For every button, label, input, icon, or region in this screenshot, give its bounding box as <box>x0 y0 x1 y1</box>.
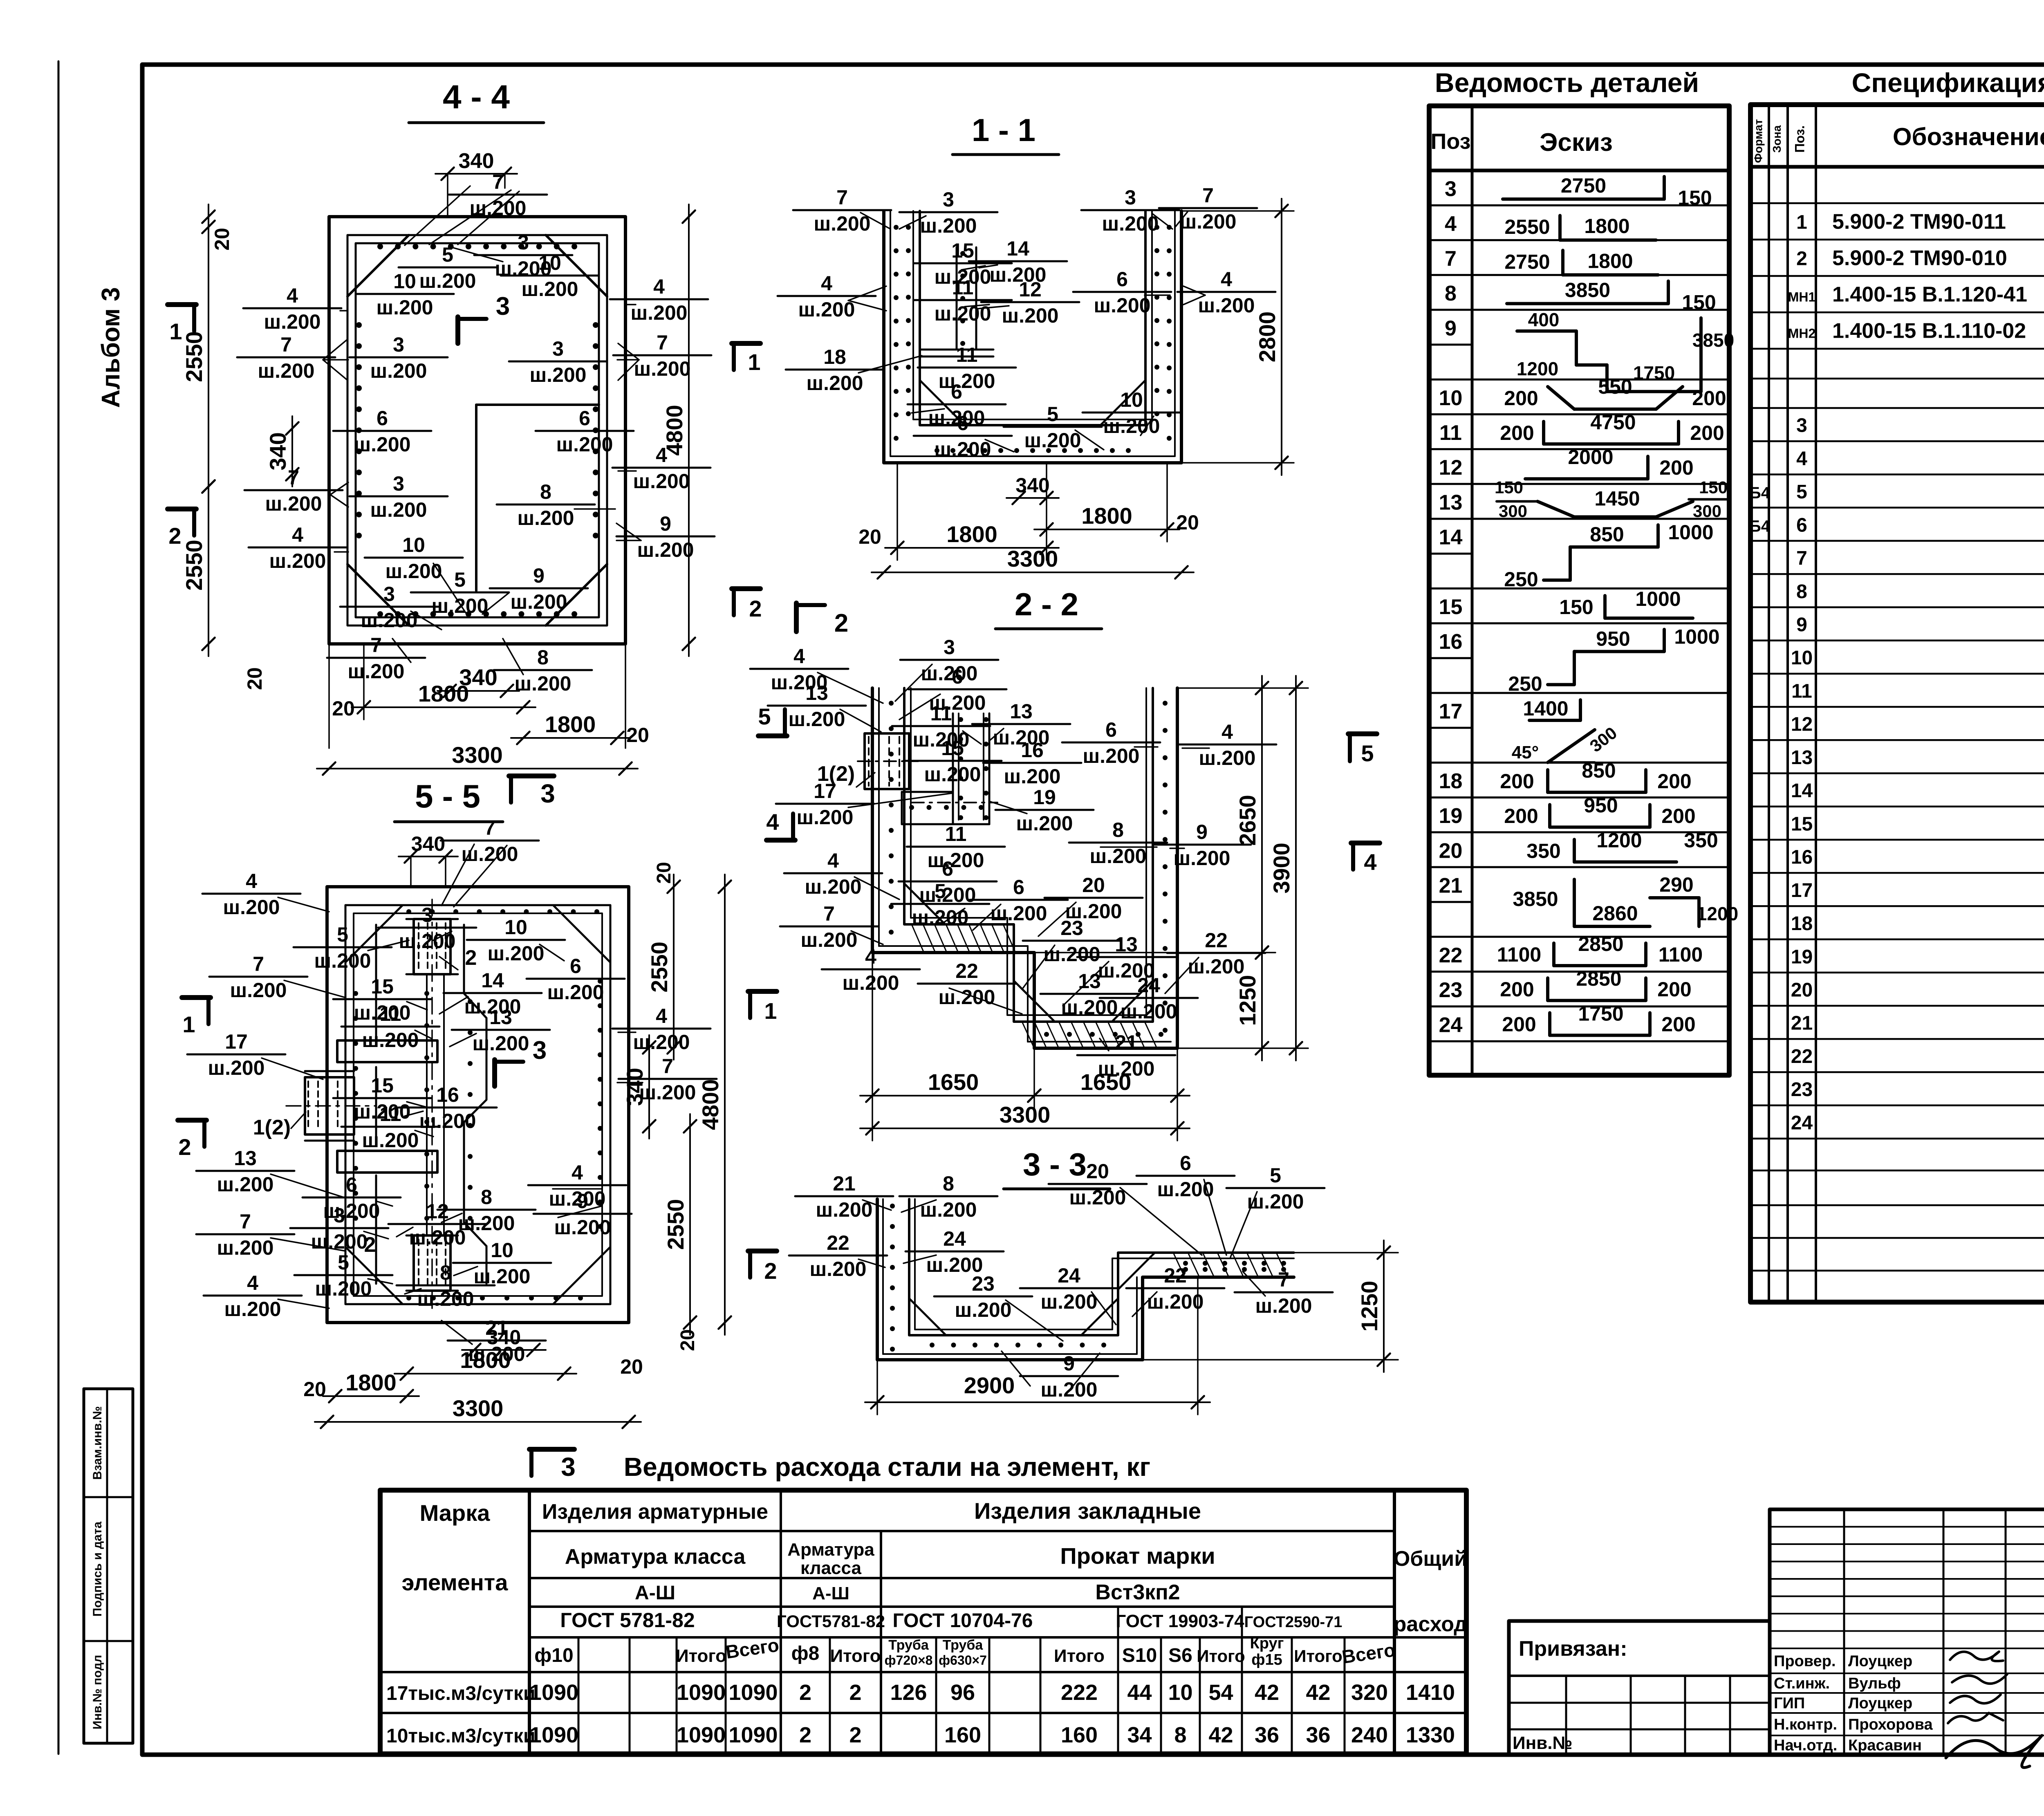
svg-text:5: 5 <box>1047 403 1058 426</box>
svg-text:ш.200: ш.200 <box>264 310 321 333</box>
svg-text:ш.200: ш.200 <box>1041 1290 1098 1313</box>
svg-text:22: 22 <box>1439 944 1463 967</box>
svg-text:1800: 1800 <box>1584 215 1629 238</box>
svg-text:150: 150 <box>1699 478 1728 497</box>
svg-text:ш.200: ш.200 <box>639 1081 696 1104</box>
svg-text:ш.200: ш.200 <box>939 986 995 1009</box>
svg-text:10: 10 <box>504 916 527 939</box>
svg-text:6: 6 <box>957 412 968 435</box>
svg-text:ш.200: ш.200 <box>348 660 405 683</box>
svg-text:Провер.: Провер. <box>1774 1653 1836 1670</box>
svg-text:850: 850 <box>1590 523 1624 546</box>
marker 3 below 5-5 <box>529 1447 574 1452</box>
svg-text:1090: 1090 <box>728 1680 778 1705</box>
svg-text:23: 23 <box>1439 978 1463 1002</box>
svg-text:Арматура: Арматура <box>787 1540 874 1560</box>
svg-text:6: 6 <box>1180 1152 1191 1175</box>
svg-text:150: 150 <box>1678 186 1712 209</box>
svg-text:20: 20 <box>858 525 881 548</box>
svg-text:5: 5 <box>454 568 466 591</box>
svg-text:13: 13 <box>805 682 828 704</box>
svg-text:ф15: ф15 <box>1251 1651 1282 1668</box>
svg-text:Прохорова: Прохорова <box>1848 1716 1933 1733</box>
svg-text:ш.200: ш.200 <box>920 1198 977 1221</box>
svg-text:5: 5 <box>758 704 771 729</box>
svg-text:300: 300 <box>1499 501 1527 520</box>
svg-text:Изделия арматурные: Изделия арматурные <box>542 1500 768 1524</box>
svg-text:Итого: Итого <box>1197 1646 1245 1666</box>
svg-text:5: 5 <box>337 923 348 946</box>
svg-text:850: 850 <box>1582 759 1616 782</box>
svg-text:7: 7 <box>1202 184 1214 207</box>
svg-text:22: 22 <box>955 960 978 982</box>
svg-text:расход: расход <box>1394 1612 1468 1636</box>
svg-text:Эскиз: Эскиз <box>1540 128 1613 157</box>
svg-text:45°: 45° <box>1512 742 1539 762</box>
svg-text:8: 8 <box>440 1261 451 1284</box>
svg-text:ш.200: ш.200 <box>409 1226 466 1249</box>
svg-text:10: 10 <box>491 1239 513 1262</box>
svg-text:8: 8 <box>1796 581 1807 603</box>
svg-text:340: 340 <box>265 432 291 470</box>
svg-text:4 - 4: 4 - 4 <box>443 78 510 116</box>
svg-text:ш.200: ш.200 <box>935 438 991 461</box>
svg-text:5: 5 <box>935 880 946 903</box>
section 4-4 outline <box>329 217 625 644</box>
svg-text:5: 5 <box>1796 481 1807 503</box>
svg-text:2: 2 <box>764 1258 777 1284</box>
svg-text:6: 6 <box>1796 514 1807 536</box>
svg-text:ш.200: ш.200 <box>634 357 691 380</box>
svg-text:3: 3 <box>334 1204 345 1227</box>
signatures <box>1950 1652 2003 1661</box>
svg-text:ш.200: ш.200 <box>208 1056 265 1079</box>
svg-text:2: 2 <box>849 1680 861 1705</box>
svg-text:1800: 1800 <box>1587 249 1633 272</box>
svg-text:ш.200: ш.200 <box>807 372 863 395</box>
svg-text:340: 340 <box>459 149 494 173</box>
svg-text:17: 17 <box>225 1030 248 1053</box>
svg-text:4: 4 <box>292 523 303 546</box>
svg-text:2: 2 <box>799 1723 811 1747</box>
svg-text:Ведомость расхода стали на эле: Ведомость расхода стали на элемент, кг <box>624 1452 1150 1482</box>
svg-text:1: 1 <box>748 349 760 375</box>
svg-text:ш.200: ш.200 <box>217 1236 274 1259</box>
svg-text:340: 340 <box>459 664 497 690</box>
svg-text:ш.200: ш.200 <box>920 214 977 237</box>
svg-text:3: 3 <box>421 904 433 926</box>
svg-text:4: 4 <box>1796 448 1807 470</box>
svg-text:340: 340 <box>622 1068 648 1106</box>
section 4-4 dimensions <box>435 173 517 175</box>
svg-text:ш.200: ш.200 <box>224 1298 281 1321</box>
svg-text:21: 21 <box>1791 1013 1813 1034</box>
svg-text:8: 8 <box>540 480 551 503</box>
svg-text:11: 11 <box>930 702 952 725</box>
svg-text:8: 8 <box>1445 282 1457 305</box>
svg-text:Взам.инв.№: Взам.инв.№ <box>91 1406 104 1480</box>
svg-text:23: 23 <box>972 1272 995 1295</box>
section 2-2 leader lines <box>818 673 883 703</box>
svg-text:ш.200: ш.200 <box>1024 429 1081 452</box>
svg-text:6: 6 <box>570 955 581 978</box>
section 5-5 leader lines <box>442 844 474 906</box>
svg-text:ш.200: ш.200 <box>362 1129 419 1152</box>
svg-text:36: 36 <box>1255 1723 1279 1747</box>
svg-text:1: 1 <box>764 998 777 1024</box>
svg-text:ш.200: ш.200 <box>230 979 287 1002</box>
svg-text:10: 10 <box>538 251 561 274</box>
svg-text:3: 3 <box>518 231 529 254</box>
svg-text:200: 200 <box>1500 770 1534 793</box>
svg-text:5: 5 <box>1270 1164 1281 1187</box>
svg-text:12: 12 <box>1439 456 1463 480</box>
svg-text:ш.200: ш.200 <box>361 609 418 632</box>
svg-text:250: 250 <box>1504 568 1538 591</box>
svg-text:ш.200: ш.200 <box>1174 847 1230 870</box>
svg-text:МН2: МН2 <box>1788 326 1816 341</box>
svg-text:21: 21 <box>833 1172 856 1195</box>
svg-text:S6: S6 <box>1168 1645 1192 1666</box>
svg-text:4: 4 <box>1221 720 1233 743</box>
svg-text:ф10: ф10 <box>534 1645 573 1666</box>
svg-text:14: 14 <box>1791 780 1813 802</box>
svg-text:11: 11 <box>945 823 967 845</box>
svg-text:13: 13 <box>1791 747 1813 769</box>
svg-text:Итого: Итого <box>1054 1646 1105 1666</box>
svg-text:2: 2 <box>849 1723 861 1747</box>
svg-text:ш.200: ш.200 <box>1002 304 1059 327</box>
svg-text:4: 4 <box>1364 849 1376 875</box>
svg-text:Ст.инж.: Ст.инж. <box>1774 1675 1830 1692</box>
svg-text:3850: 3850 <box>1513 888 1558 910</box>
svg-text:1000: 1000 <box>1668 521 1713 544</box>
svg-text:24: 24 <box>1791 1112 1813 1134</box>
svg-text:ш.200: ш.200 <box>1198 294 1255 317</box>
svg-text:ш.200: ш.200 <box>522 278 578 300</box>
svg-text:1330: 1330 <box>1406 1723 1455 1747</box>
svg-text:3: 3 <box>1445 177 1457 201</box>
svg-text:3: 3 <box>1125 186 1136 209</box>
svg-text:Итого: Итого <box>676 1646 726 1666</box>
svg-text:11: 11 <box>380 1103 401 1125</box>
marker T1 right 5-5 <box>748 989 777 994</box>
svg-text:ш.200: ш.200 <box>473 1032 529 1055</box>
svg-text:4: 4 <box>766 809 779 835</box>
section 5-5 dimensions <box>399 856 458 857</box>
svg-text:ш.200: ш.200 <box>1157 1178 1214 1201</box>
svg-text:ш.200: ш.200 <box>223 896 280 919</box>
svg-text:15: 15 <box>1439 595 1463 619</box>
svg-text:20: 20 <box>303 1378 326 1401</box>
svg-text:17тыс.м3/сутки: 17тыс.м3/сутки <box>386 1683 535 1704</box>
marker 2 left of 4-4 <box>168 507 196 511</box>
svg-text:20: 20 <box>1086 1160 1109 1183</box>
svg-text:ш.200: ш.200 <box>1188 955 1245 978</box>
svg-text:Инв.№ подл: Инв.№ подл <box>91 1655 104 1729</box>
svg-text:3300: 3300 <box>1000 1102 1051 1128</box>
svg-text:3: 3 <box>561 1452 576 1482</box>
marker 2 below 1-1 <box>794 603 799 632</box>
svg-text:элемента: элемента <box>402 1569 509 1595</box>
svg-text:13: 13 <box>1010 700 1033 723</box>
svg-text:Обозначение: Обозначение <box>1893 123 2044 150</box>
svg-text:8: 8 <box>943 1172 954 1195</box>
svg-text:1800: 1800 <box>1081 503 1132 529</box>
svg-text:ГОСТ 10704-76: ГОСТ 10704-76 <box>893 1610 1033 1632</box>
svg-text:2750: 2750 <box>1504 250 1550 273</box>
svg-text:1800: 1800 <box>946 521 997 547</box>
svg-text:2: 2 <box>168 523 181 549</box>
svg-text:14: 14 <box>1006 237 1029 260</box>
svg-text:21: 21 <box>1439 874 1463 898</box>
svg-text:ш.200: ш.200 <box>1044 943 1100 966</box>
svg-text:20: 20 <box>626 724 649 747</box>
section 2-2 outline <box>872 688 1177 1048</box>
svg-text:200: 200 <box>1500 421 1534 444</box>
svg-text:300: 300 <box>1693 501 1721 520</box>
title block signature grid <box>1770 1509 2044 1755</box>
svg-text:ш.200: ш.200 <box>843 971 899 994</box>
svg-text:3300: 3300 <box>452 742 503 768</box>
steel table grid <box>380 1490 1466 1754</box>
svg-text:4: 4 <box>572 1161 583 1184</box>
svg-text:1410: 1410 <box>1406 1680 1455 1705</box>
svg-text:126: 126 <box>890 1680 927 1705</box>
svg-text:1250: 1250 <box>1235 975 1260 1026</box>
svg-text:ш.200: ш.200 <box>1004 765 1061 788</box>
svg-text:8: 8 <box>537 646 549 669</box>
svg-text:20: 20 <box>620 1355 643 1378</box>
svg-text:200: 200 <box>1504 805 1538 827</box>
svg-text:13: 13 <box>1439 491 1463 514</box>
svg-text:ш.200: ш.200 <box>637 538 694 561</box>
svg-text:2550: 2550 <box>181 331 207 382</box>
svg-text:21: 21 <box>1115 1031 1138 1054</box>
svg-text:А-Ш: А-Ш <box>812 1583 849 1603</box>
svg-text:200: 200 <box>1657 770 1691 793</box>
svg-text:4: 4 <box>656 444 667 466</box>
marker 1 left of 4-4 <box>168 302 196 307</box>
svg-text:4: 4 <box>1221 268 1232 291</box>
svg-text:250: 250 <box>1508 673 1542 695</box>
svg-text:16: 16 <box>436 1083 459 1106</box>
section 4-4 leader lines <box>405 186 470 245</box>
svg-text:МН1: МН1 <box>1788 290 1816 305</box>
svg-text:1450: 1450 <box>1594 487 1640 510</box>
svg-text:Инв.№: Инв.№ <box>1513 1733 1573 1753</box>
marker 5 right <box>1348 731 1377 736</box>
svg-text:6: 6 <box>346 1173 357 1196</box>
svg-text:ГОСТ2590-71: ГОСТ2590-71 <box>1244 1614 1342 1631</box>
svg-text:1800: 1800 <box>545 711 596 737</box>
svg-text:3: 3 <box>533 1036 547 1065</box>
svg-text:1400: 1400 <box>1523 697 1568 720</box>
svg-text:ш.200: ш.200 <box>488 942 545 965</box>
svg-text:ш.200: ш.200 <box>1069 1186 1126 1209</box>
svg-text:24: 24 <box>1439 1013 1463 1037</box>
svg-text:ш.200: ш.200 <box>419 269 476 292</box>
svg-text:20: 20 <box>1082 874 1105 897</box>
svg-text:23: 23 <box>1791 1079 1813 1101</box>
marker 1 left 5-5 <box>182 995 211 1000</box>
svg-text:ш.200: ш.200 <box>631 301 688 324</box>
svg-text:20: 20 <box>1176 511 1199 534</box>
svg-text:4: 4 <box>287 284 298 307</box>
svg-text:7: 7 <box>836 186 848 209</box>
svg-text:20: 20 <box>332 697 355 720</box>
svg-text:ш.200: ш.200 <box>370 359 427 382</box>
svg-text:2550: 2550 <box>646 942 672 993</box>
svg-text:13: 13 <box>489 1006 512 1029</box>
svg-text:340: 340 <box>1015 474 1049 497</box>
svg-text:22: 22 <box>1164 1264 1187 1287</box>
section 4-4 marker 3 bottom <box>509 773 554 778</box>
svg-text:20: 20 <box>653 862 675 883</box>
svg-text:2850: 2850 <box>1578 933 1623 955</box>
svg-text:20: 20 <box>1439 839 1463 863</box>
svg-text:200: 200 <box>1657 978 1691 1001</box>
svg-text:20: 20 <box>677 1329 699 1351</box>
svg-text:1090: 1090 <box>728 1723 778 1747</box>
svg-text:3: 3 <box>943 188 954 211</box>
svg-text:11: 11 <box>952 276 974 299</box>
svg-text:16: 16 <box>1791 847 1813 868</box>
svg-text:42: 42 <box>1255 1680 1279 1705</box>
svg-text:14: 14 <box>481 969 504 992</box>
svg-text:20: 20 <box>211 228 233 251</box>
svg-text:6: 6 <box>579 407 590 430</box>
svg-text:1(2): 1(2) <box>253 1116 291 1139</box>
svg-text:ш.200: ш.200 <box>314 949 371 972</box>
svg-text:1: 1 <box>169 318 182 344</box>
svg-text:Лоуцкер: Лоуцкер <box>1848 1653 1912 1670</box>
svg-text:350: 350 <box>1526 839 1560 862</box>
svg-text:3: 3 <box>496 292 510 321</box>
svg-text:ф8: ф8 <box>791 1643 820 1664</box>
svg-text:ш.200: ш.200 <box>1102 212 1159 235</box>
svg-text:2: 2 <box>364 1233 376 1257</box>
svg-text:15: 15 <box>1791 813 1813 835</box>
svg-text:Красавин: Красавин <box>1848 1737 1922 1754</box>
svg-text:5.900-2 ТМ90-011: 5.900-2 ТМ90-011 <box>1832 210 2006 234</box>
svg-text:1200: 1200 <box>1596 829 1642 852</box>
svg-text:9: 9 <box>660 512 671 535</box>
svg-text:4: 4 <box>793 645 805 668</box>
svg-text:17: 17 <box>1439 700 1463 724</box>
svg-text:ш.200: ш.200 <box>432 594 489 617</box>
section 3-3 outline <box>877 1199 1294 1360</box>
table2 grid <box>1750 105 2044 1302</box>
svg-text:400: 400 <box>1528 309 1560 330</box>
svg-text:2000: 2000 <box>1568 446 1613 469</box>
svg-text:160: 160 <box>1061 1723 1098 1747</box>
svg-text:1: 1 <box>182 1011 195 1037</box>
svg-text:ГИП: ГИП <box>1774 1695 1805 1712</box>
svg-text:550: 550 <box>1598 375 1632 398</box>
svg-text:34: 34 <box>1127 1723 1152 1747</box>
svg-text:класса: класса <box>800 1558 861 1578</box>
svg-text:3850: 3850 <box>1692 330 1734 351</box>
svg-text:Вст3кп2: Вст3кп2 <box>1095 1581 1180 1604</box>
svg-text:18: 18 <box>1791 913 1813 935</box>
svg-text:7: 7 <box>662 1055 673 1078</box>
svg-text:150: 150 <box>1495 478 1523 497</box>
svg-text:950: 950 <box>1596 628 1630 650</box>
svg-text:2: 2 <box>465 946 477 970</box>
svg-text:8: 8 <box>481 1186 492 1208</box>
section 1-1 dimensions <box>1281 199 1282 475</box>
svg-text:3: 3 <box>552 337 564 360</box>
svg-text:3: 3 <box>540 779 555 808</box>
svg-text:150: 150 <box>1559 596 1593 619</box>
svg-text:Лоуцкер: Лоуцкер <box>1848 1695 1912 1712</box>
svg-text:ш.200: ш.200 <box>921 662 978 685</box>
svg-text:ш.200: ш.200 <box>419 1110 476 1132</box>
marker T1 right of 4-4 <box>732 341 760 346</box>
svg-text:3900: 3900 <box>1269 843 1294 894</box>
svg-text:Формат: Формат <box>1752 119 1765 163</box>
svg-text:3: 3 <box>383 583 395 605</box>
svg-text:ш.200: ш.200 <box>1094 294 1151 317</box>
svg-text:2650: 2650 <box>1235 795 1260 846</box>
svg-text:7: 7 <box>1796 548 1807 569</box>
svg-text:12: 12 <box>1019 278 1042 301</box>
svg-text:12: 12 <box>426 1200 449 1223</box>
svg-text:10: 10 <box>1168 1680 1192 1705</box>
svg-text:200: 200 <box>1504 387 1538 410</box>
svg-text:ш.200: ш.200 <box>1180 210 1237 233</box>
svg-text:Марка: Марка <box>420 1500 491 1526</box>
svg-text:7: 7 <box>288 466 299 489</box>
svg-text:11: 11 <box>380 1002 401 1025</box>
svg-text:ш.200: ш.200 <box>939 370 995 392</box>
svg-text:2 - 2: 2 - 2 <box>1015 586 1078 622</box>
svg-text:Общий: Общий <box>1394 1547 1467 1571</box>
svg-text:4: 4 <box>656 1004 667 1027</box>
svg-text:ф630×7: ф630×7 <box>939 1653 987 1668</box>
svg-text:6: 6 <box>1013 876 1024 899</box>
svg-text:ш.200: ш.200 <box>1199 747 1256 769</box>
svg-text:Круг: Круг <box>1250 1635 1284 1652</box>
svg-text:4: 4 <box>827 849 839 872</box>
privyazan block <box>1509 1621 1770 1755</box>
svg-text:2860: 2860 <box>1592 902 1638 925</box>
svg-text:16: 16 <box>1439 630 1463 654</box>
svg-text:6: 6 <box>951 380 962 403</box>
svg-text:2: 2 <box>834 609 848 637</box>
svg-text:ш.200: ш.200 <box>470 197 527 220</box>
svg-text:11: 11 <box>1439 421 1462 445</box>
svg-text:9: 9 <box>577 1190 588 1213</box>
svg-text:1000: 1000 <box>1674 626 1719 648</box>
svg-text:6: 6 <box>377 407 388 430</box>
svg-text:15: 15 <box>371 975 394 998</box>
table1 sketches <box>1503 197 1664 201</box>
svg-text:1100: 1100 <box>1659 943 1703 966</box>
svg-text:Изделия закладные: Изделия закладные <box>974 1498 1201 1524</box>
svg-text:150: 150 <box>1682 291 1716 314</box>
svg-text:2800: 2800 <box>1254 312 1280 363</box>
svg-text:ГОСТ5781-82: ГОСТ5781-82 <box>777 1612 885 1631</box>
svg-text:2750: 2750 <box>1561 174 1606 197</box>
section 1-1 outline <box>884 211 1181 463</box>
svg-text:340: 340 <box>487 1326 521 1349</box>
svg-text:ш.200: ш.200 <box>518 507 574 529</box>
svg-text:290: 290 <box>1659 873 1693 896</box>
svg-text:ш.200: ш.200 <box>797 806 854 829</box>
svg-text:Прокат марки: Прокат марки <box>1060 1543 1215 1569</box>
